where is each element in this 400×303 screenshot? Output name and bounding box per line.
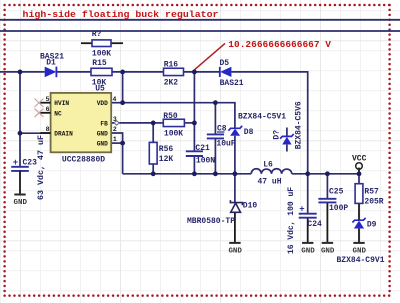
pin 5 HVIN (40, 96, 69, 107)
wire R50 right to feedback column (184, 122, 194, 124)
resistor R? (floating) (81, 30, 123, 59)
schottky diode D10 MBR0580-TP (230, 200, 257, 212)
svg-text:BZX84-C5V6: BZX84-C5V6 (294, 101, 303, 149)
wire D? bottom stub (286, 145, 288, 152)
svg-text:BZX84-C5V1: BZX84-C5V1 (238, 113, 286, 122)
wire input to D1 anode (0, 71, 45, 73)
svg-text:10.2666666666667 V: 10.2666666666667 V (228, 39, 331, 50)
wire R15 to R16 (through VDD tap) (112, 71, 164, 73)
wire IC ground down to rail (122, 143, 124, 174)
wire switch rail left of L6 (123, 173, 252, 175)
ground (C24) (301, 243, 315, 256)
junction C8/rail (213, 171, 218, 176)
pin 6 NC (40, 106, 61, 117)
svg-text:D8: D8 (244, 128, 254, 137)
wire D? top stub (286, 128, 288, 137)
svg-text:47 uH: 47 uH (258, 178, 282, 187)
diode D5 BAS21 (220, 59, 244, 88)
junction VDD/C8 (213, 100, 218, 105)
svg-text:C23: C23 (23, 159, 38, 168)
wire R15/R16 tap down to VDD (122, 72, 124, 103)
junction VDD (120, 100, 125, 105)
junction C25/rail (325, 171, 330, 176)
svg-text:5: 5 (46, 96, 50, 103)
junction C21/rail (192, 171, 197, 176)
svg-text:1: 1 (113, 136, 117, 143)
junction D8/D10/rail (233, 171, 238, 176)
wire C24 top lead (307, 174, 309, 214)
wire VCC stem (358, 168, 360, 174)
svg-text:DRAIN: DRAIN (54, 131, 73, 138)
ground (D10) (228, 243, 242, 256)
svg-text:VDD: VDD (97, 100, 108, 107)
ground (D9) (353, 243, 367, 256)
zener diode D8 BZX84-C5V1 (228, 113, 286, 138)
resistor R56 (149, 142, 173, 164)
svg-text:C24: C24 (307, 220, 322, 229)
svg-text:10uF: 10uF (216, 139, 235, 148)
wire VDD net to D8 cathode (215, 103, 235, 129)
svg-text:6: 6 (46, 106, 50, 113)
resistor R16 (164, 60, 184, 87)
svg-text:FB: FB (100, 120, 107, 127)
svg-text:C8: C8 (217, 125, 227, 134)
svg-text:D5: D5 (220, 59, 230, 68)
svg-text:D1: D1 (46, 58, 56, 67)
pin 2 GND (97, 126, 117, 137)
pin 3 FB (100, 116, 116, 127)
op-amp/IC U5 UCC28880D (51, 84, 112, 164)
wire C24 bottom to ground (307, 218, 309, 243)
svg-text:GND: GND (321, 247, 335, 255)
svg-text:BZX84-C9V1: BZX84-C9V1 (337, 256, 385, 265)
svg-text:HVIN: HVIN (54, 100, 69, 107)
svg-text:8: 8 (46, 126, 50, 133)
wire VDD pin stub (111, 102, 122, 104)
wire input branch down to C23 (19, 72, 21, 166)
wire D5 anode to output rail (231, 72, 307, 174)
svg-text:R15: R15 (92, 59, 107, 68)
wire D8 anode down to D10 cathode (234, 136, 236, 203)
junction R56/rail (151, 171, 156, 176)
pin 1 GND (97, 136, 117, 147)
wire C25 top lead (326, 174, 328, 199)
power symbol VCC (352, 155, 367, 170)
junction FB/R50/R56 (151, 121, 156, 126)
resistor R57 (355, 184, 384, 207)
junction R15/R16 (120, 70, 125, 75)
svg-text:R16: R16 (164, 60, 179, 69)
svg-text:D10: D10 (243, 201, 258, 210)
ground (C25) (321, 243, 335, 256)
pin 4 VDD (97, 96, 117, 107)
wire GND pin 1 (111, 142, 122, 144)
svg-text:R56: R56 (159, 145, 174, 154)
svg-text:GND: GND (97, 141, 108, 148)
wire R57 to D9 cathode (358, 203, 360, 220)
svg-text:+: + (299, 204, 304, 214)
svg-text:L6: L6 (263, 160, 273, 169)
svg-text:16 Vdc, 100 uF: 16 Vdc, 100 uF (287, 187, 296, 254)
wire R16 to D5 cathode (184, 71, 220, 73)
wire D9 anode to ground (358, 229, 360, 243)
FB pin diamond marker (114, 121, 119, 125)
pin 8 DRAIN (40, 126, 73, 137)
wire C8 bottom lead (214, 139, 216, 174)
svg-text:NC: NC (54, 110, 61, 117)
capacitor C24 (polarized) (299, 204, 322, 229)
ground (C23) (14, 195, 28, 208)
svg-text:C25: C25 (329, 188, 344, 197)
resistor R15 (91, 59, 112, 87)
svg-text:+: + (13, 158, 18, 168)
wire D1 cathode to R15 (56, 71, 91, 73)
svg-text:100K: 100K (164, 130, 183, 139)
resistor R50 (163, 112, 184, 139)
svg-text:C21: C21 (195, 144, 210, 153)
wire R56 top lead (152, 123, 154, 142)
voltage annotation 10.2666666666667 V (193, 39, 331, 71)
zener diode D9 BZX84-C9V1 (352, 218, 376, 230)
svg-text:high-side floating buck regula: high-side floating buck regulator (23, 9, 219, 20)
wire to R50 left (153, 122, 163, 124)
svg-text:VCC: VCC (352, 155, 367, 164)
svg-text:BAS21: BAS21 (220, 79, 244, 88)
svg-text:63 Vdc, 47 uF: 63 Vdc, 47 uF (36, 135, 46, 200)
wire C21 bottom lead (193, 156, 195, 174)
junction D5/C24/rail (305, 171, 310, 176)
svg-text:GND: GND (353, 247, 367, 255)
junction VCC/R57/rail (357, 171, 362, 176)
svg-text:4: 4 (113, 96, 117, 103)
svg-text:2: 2 (113, 126, 117, 133)
junction R16 output (192, 70, 197, 75)
inductor L6 47 uH (251, 160, 292, 186)
svg-text:100P: 100P (329, 204, 348, 213)
svg-text:GND: GND (97, 131, 108, 138)
wire D10 anode to ground (234, 212, 236, 242)
svg-text:GND: GND (228, 247, 242, 255)
wire C23 to ground (19, 171, 21, 194)
capacitor C8 (207, 125, 236, 149)
svg-text:205R: 205R (364, 198, 383, 207)
wire to DRAIN pin 8 (20, 132, 51, 134)
svg-text:D?: D? (273, 130, 282, 140)
junction DRAIN branch (18, 131, 23, 136)
junction input/D1 (18, 70, 23, 75)
wire rail to R57 (358, 174, 360, 184)
svg-text:D9: D9 (367, 221, 377, 230)
svg-text:100K: 100K (92, 49, 111, 58)
svg-text:2K2: 2K2 (164, 78, 179, 87)
wire FB pin to divider (111, 122, 153, 124)
svg-text:100N: 100N (196, 157, 215, 166)
junction R50/C21 (192, 121, 197, 126)
svg-text:GND: GND (301, 247, 315, 255)
wire C25 bottom to ground (326, 203, 328, 243)
wire GND pin 2 (111, 133, 122, 143)
wire C8 top lead (214, 103, 216, 134)
wire R16 output down through R50 node to C21 (193, 72, 195, 151)
wire R56 bottom lead (152, 164, 154, 174)
svg-text:R57: R57 (364, 188, 379, 197)
svg-text:UCC28880D: UCC28880D (62, 155, 105, 164)
capacitor C21 (186, 144, 215, 166)
svg-text:12K: 12K (159, 155, 174, 164)
junction GND pins (120, 141, 125, 146)
no-connect X on pin 6 (35, 109, 44, 118)
svg-text:U5: U5 (95, 84, 105, 93)
wire output rail right of L6 (292, 173, 359, 175)
diode D1 BAS21 (40, 52, 64, 77)
capacitor C23 (polarized) (11, 158, 37, 171)
wire VDD net to C8 (123, 102, 216, 104)
capacitor C25 (318, 188, 348, 213)
svg-text:MBR0580-TP: MBR0580-TP (187, 217, 235, 226)
svg-text:R?: R? (92, 30, 102, 39)
zener diode D? BZX84-C5V6 (floating) (273, 101, 304, 149)
no-connect X on pin 5 (35, 99, 44, 108)
svg-text:R50: R50 (163, 112, 178, 121)
svg-text:GND: GND (14, 199, 28, 207)
